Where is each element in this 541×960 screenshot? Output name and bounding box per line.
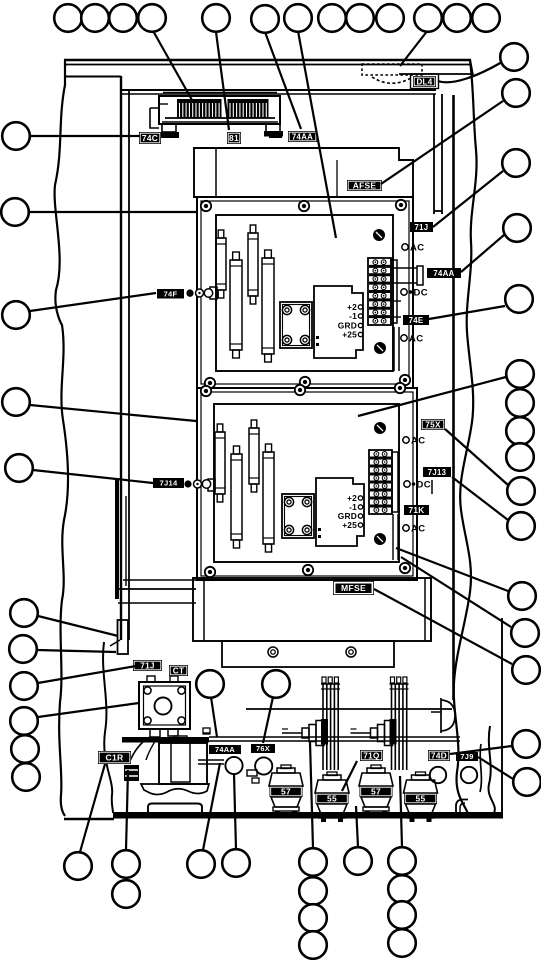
svg-text:74AA: 74AA [215,745,235,754]
svg-text:AFSE: AFSE [353,181,377,191]
svg-text:AC: AC [411,436,426,447]
svg-text:74C: 74C [142,133,158,143]
svg-text:DC: DC [417,480,432,491]
svg-text:7J14: 7J14 [159,479,178,488]
svg-text:75X: 75X [425,420,441,429]
svg-text:MFSE: MFSE [341,583,366,593]
svg-text:71K: 71K [409,506,425,515]
svg-text:81: 81 [229,133,239,143]
svg-text:AC: AC [409,334,424,345]
svg-text:7J13: 7J13 [428,468,447,477]
svg-text:74D: 74D [431,751,447,760]
svg-text:74AA: 74AA [292,132,313,141]
svg-text:71J: 71J [415,223,429,232]
svg-text:+25: +25 [342,520,357,530]
svg-text:74AA: 74AA [433,269,454,278]
svg-text:AC: AC [410,243,425,254]
svg-text:DL4: DL4 [416,77,432,86]
svg-text:57: 57 [371,787,381,797]
svg-text:55: 55 [416,794,426,804]
svg-text:7J9: 7J9 [460,752,473,761]
svg-text:71Q: 71Q [363,751,380,760]
svg-text:74E: 74E [409,316,424,325]
svg-text:71J: 71J [140,661,155,670]
svg-text:55: 55 [327,794,337,804]
svg-text:57: 57 [281,787,291,797]
svg-text:CT: CT [173,666,185,675]
svg-text:74F: 74F [164,289,178,298]
svg-text:DC: DC [414,288,429,299]
svg-text:AC: AC [411,524,426,535]
svg-text:+25: +25 [342,330,357,340]
svg-text:-1: -1 [349,311,357,321]
svg-text:76X: 76X [256,744,270,753]
svg-text:C1R: C1R [105,753,124,763]
